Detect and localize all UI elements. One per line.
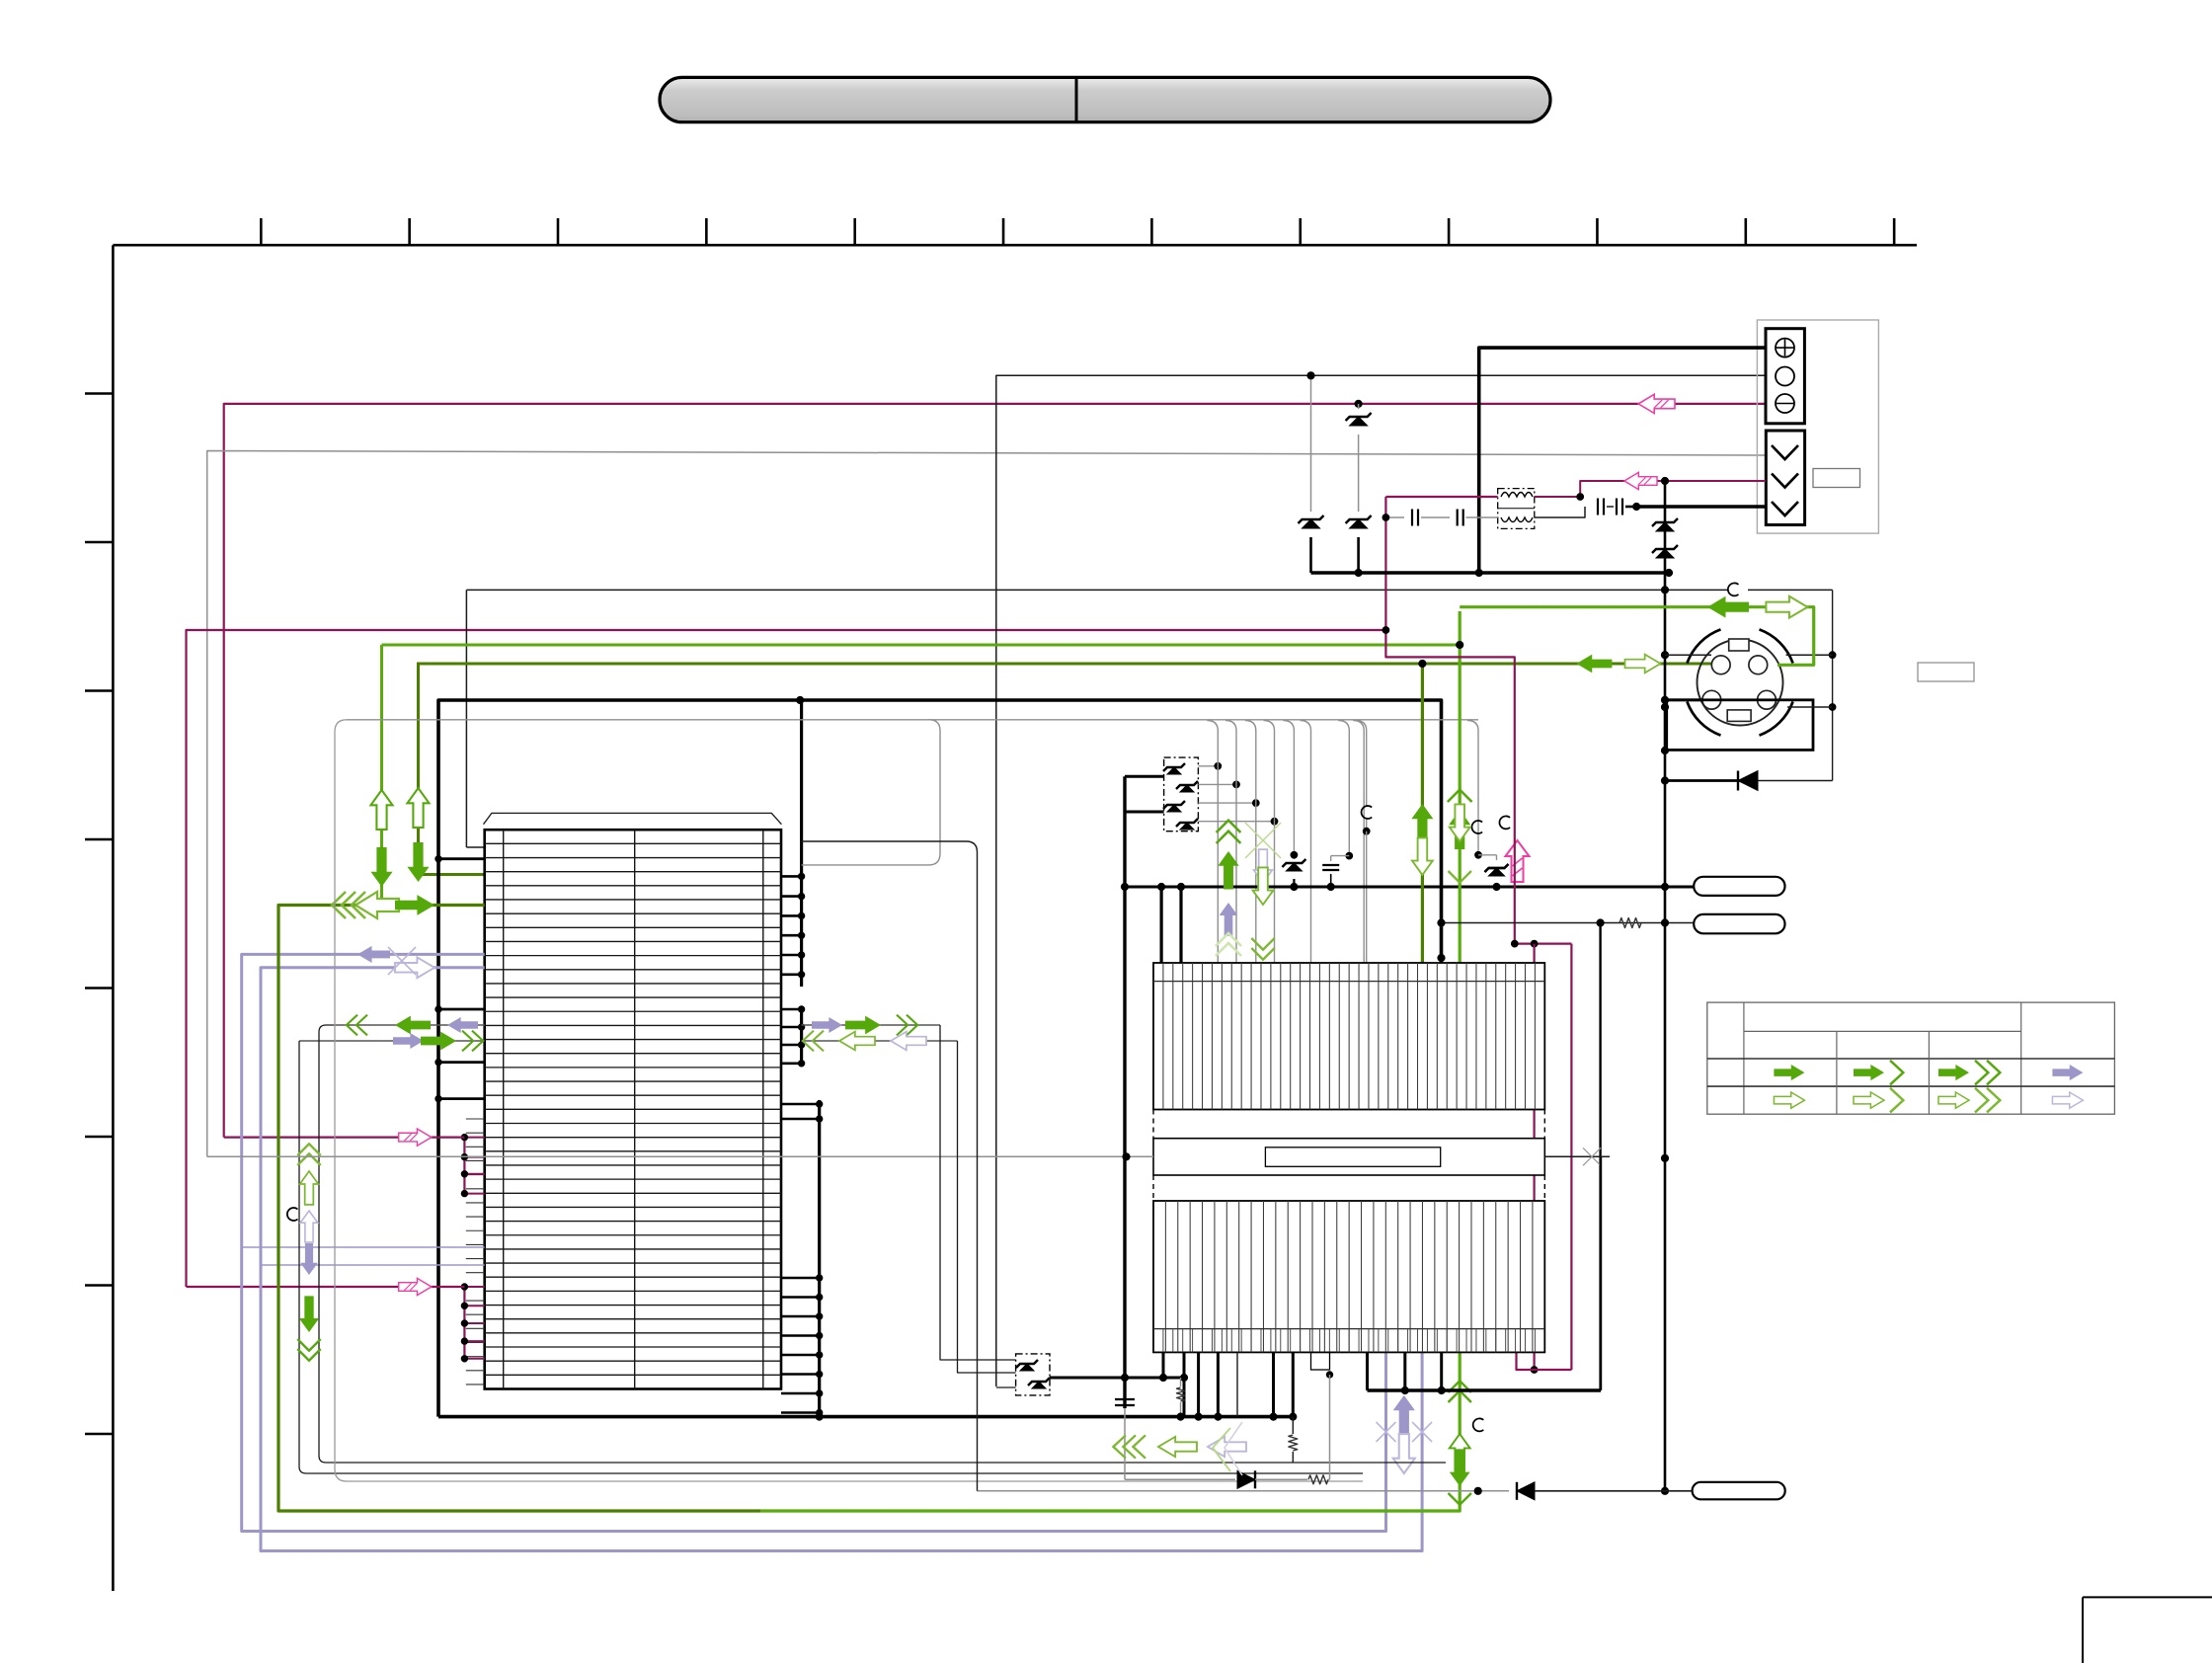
wire: long crimson bus left: [187, 630, 1386, 1287]
small gray rect beside jack: [1813, 469, 1860, 488]
mosfet gate line4: [1198, 821, 1274, 823]
thick pin 1233 bottom: [1217, 1352, 1220, 1416]
filter out to pin2 wire: [1535, 481, 1766, 497]
bottom-right corner box: [2083, 1596, 2212, 1598]
S-video mini-DIN connector: [1760, 702, 1793, 736]
pin bus right of left block group3: [818, 1100, 821, 1417]
pill C wire: [978, 1490, 1510, 1492]
resistor below rail: [1292, 1417, 1294, 1434]
lavender solid down arrow stack: [300, 1243, 318, 1275]
thick pin 1384 bottom: [1366, 1352, 1369, 1390]
pin bus right of left block group2: [800, 1009, 803, 1064]
diode wire below S-video: [1665, 779, 1754, 782]
legend open arrow c2: [1854, 1088, 1903, 1113]
gray bus rake main: [347, 719, 1478, 721]
green solid up arrow on 1440: [1411, 804, 1433, 843]
dark green big loop wire left: [278, 906, 760, 1512]
lavender solid left arrow y1038L: [447, 1017, 478, 1033]
rail junction dots: [1177, 1413, 1184, 1420]
title banner pill: [660, 77, 1550, 121]
thick black bus y=898: [1125, 886, 1694, 889]
green solid up+chev arrow on 1478: [1448, 790, 1472, 849]
IC block right middle band: [1152, 1110, 1154, 1139]
zener box bottom: [1016, 1354, 1050, 1395]
green big loop wire right: [760, 1352, 1460, 1511]
lavender solid left arrow y=966: [357, 946, 390, 963]
big green open right arrow y=619: [1766, 596, 1807, 618]
wire: dark green horizontal y=670 to S-video: [419, 663, 1712, 666]
rake branch to capacitor: [1338, 721, 1349, 856]
lavender solid up arrow bottom right: [1393, 1395, 1415, 1435]
frame wire F2: [299, 1041, 1363, 1473]
wire: thin black long net y=595: [466, 589, 1832, 591]
bus junction dots: [1121, 883, 1128, 890]
lavender solid up arrow mid below bus: [1220, 903, 1238, 936]
lavender loop2 wire: [261, 968, 1422, 1551]
zener chain x=1327.5: [1310, 375, 1312, 512]
thick pin 1459 bottom: [1440, 1352, 1443, 1390]
pink arrow on pin2 wire: [1624, 472, 1657, 489]
crimson wire into group2: [187, 1286, 465, 1288]
frame wire F1: [0, 0, 1, 1]
terminal block 3-pin (circles): [1766, 329, 1804, 424]
curl on frame top: [1728, 583, 1748, 596]
gray drop wire to pill C: [802, 841, 978, 1491]
thick pin 1199 bottom: [1183, 1352, 1186, 1416]
resistor pin 1195: [1180, 1378, 1182, 1386]
legend solid arrow c1: [1774, 1065, 1804, 1080]
gray wire with diode+resistor: [1124, 1408, 1126, 1479]
zeners on x=1686: [1656, 522, 1674, 531]
thick stub into mosfet box1: [1125, 775, 1164, 778]
filter bottom out caps to pin3: [1535, 507, 1585, 517]
crimson pin bus group2: [463, 1287, 465, 1359]
curl glyph top: [1728, 583, 1739, 595]
capacitor below x=1139: [1115, 1398, 1135, 1400]
thick stubs left of block: [438, 857, 485, 860]
left ruler with ticks: [112, 245, 115, 1591]
thick pin 1422 bottom: [1403, 1352, 1406, 1390]
rake branch to zener pair: [1283, 721, 1294, 855]
thick vertical x=1139: [1123, 776, 1126, 1408]
green solid right arrow y1038R: [845, 1015, 917, 1036]
purple solid up arrow bottom: [1393, 1395, 1414, 1433]
pill terminal C: [1693, 1482, 1785, 1500]
green open right arrow y=670: [1625, 655, 1661, 673]
wire: gray net to DC-jack pin1: [207, 451, 1766, 1157]
MOSFET/zener array box top: [1164, 757, 1199, 831]
green solid right arrow y1054L: [421, 1031, 483, 1052]
S-video pin wires row2: [1665, 698, 1702, 701]
green open left chevron arrow y=1465: [1113, 1435, 1197, 1458]
IC block left (connector CN grid): [484, 813, 782, 824]
green chevron open up arrow bottom right: [1449, 1381, 1471, 1470]
IC block right top section: [1153, 963, 1544, 1110]
lavender branch stub2: [261, 1264, 485, 1266]
bright green S-video loop: [1460, 607, 1814, 666]
white open up arrow stack: [300, 1211, 318, 1242]
wire: dark green vertical drop x=423.5: [419, 663, 485, 875]
dots on long vertical: [1661, 587, 1668, 594]
rake branch with curl: [1356, 721, 1367, 807]
line y1038 right: [802, 1024, 940, 1026]
small box under right block: [1311, 1352, 1330, 1370]
dark green vertical x=1440: [1421, 664, 1424, 963]
thin pin 1253 bottom: [1236, 1352, 1238, 1416]
junction dot at right block top: [1438, 954, 1445, 961]
top ruler with ticks: [113, 244, 1917, 247]
green solid down arrow stack: [297, 1296, 320, 1360]
pill B wire: [1442, 922, 1695, 924]
green open down+chev arrow on 1478: [1449, 804, 1471, 882]
mosfet gate line1: [1198, 765, 1218, 767]
wire: bright green vertical drop x=386.5: [380, 645, 383, 906]
cap chain left of filter: [1385, 516, 1404, 518]
crimson bottom hook: [1517, 1352, 1572, 1370]
green solid down arrow on x=423.5: [407, 842, 429, 882]
pink arrow on crimson terminal wire: [1638, 394, 1675, 413]
vertical x=1620 down: [1599, 923, 1601, 1391]
mosfet gate line2: [1198, 783, 1236, 785]
IC block right bottom section: [1153, 1201, 1544, 1352]
gray line y1054 left: [299, 1040, 485, 1042]
white open left arrow y1054R: [891, 1032, 926, 1051]
green open up arrow stack: [297, 1144, 320, 1205]
green solid left arrow y1038L: [347, 1015, 431, 1036]
big gray frame left+bottom: [335, 720, 1363, 1481]
DC jack 3-chevron connector: [1766, 431, 1804, 525]
thick pin 1178 bottom: [1162, 1352, 1165, 1378]
banner divider: [1075, 77, 1078, 121]
thick bottom rail: [438, 1415, 1295, 1419]
crimson wire into group1: [224, 1136, 465, 1138]
legend solid arrow c3: [1938, 1061, 2000, 1085]
lavender branch stub1: [242, 1246, 485, 1248]
green open left arrow y1054R: [803, 1031, 875, 1052]
green open down arrow on 1440: [1412, 837, 1433, 875]
lavender open right arrow y=980: [395, 957, 434, 978]
curl glyph left stack: [287, 1208, 298, 1221]
terminal block outer gray box: [1757, 320, 1878, 533]
rake last branch to zener: [1467, 721, 1478, 855]
curl on rake near zener: [1471, 821, 1482, 833]
green open up arrow on x=423.5: [407, 788, 429, 828]
bus rake branches into right block: [1207, 721, 1218, 964]
LC filter box: [1498, 489, 1535, 529]
thick pin down 1196: [1179, 887, 1182, 963]
legend purple arrow: [2052, 1065, 2083, 1080]
green solid right arrow y=916: [395, 895, 434, 915]
thick bus y=1408: [1368, 1388, 1602, 1391]
pin bus right of left block group1: [800, 701, 803, 987]
legend open arrow c1: [1774, 1092, 1804, 1108]
crimson path filter to right block: [1385, 497, 1514, 944]
big green solid left arrow y=619: [1707, 596, 1749, 618]
thick pin 1213 bottom: [1197, 1352, 1200, 1416]
crimson wire into filter: [1385, 496, 1497, 498]
thick bus y=580: [1311, 571, 1670, 574]
green open down arrow mid below bus: [1251, 867, 1274, 959]
x-mark crossing at lavender arrows: [388, 947, 416, 975]
rake branch to left block bus: [802, 720, 940, 865]
lavender open down arrow mid: [1254, 849, 1273, 883]
S-video pin wires row1: [1665, 654, 1711, 656]
centerline stub left: [207, 1155, 1153, 1157]
thick pin down 1176: [1159, 887, 1162, 963]
thick wire zener to pins: [1050, 1377, 1184, 1380]
legend table: [1707, 1002, 2115, 1114]
bright green vertical x=1478: [1459, 611, 1461, 963]
crimson horizontal y=955.6: [1515, 942, 1572, 944]
green open up arrow on x=386.5: [370, 790, 392, 830]
black zener pair right of greens: [1489, 868, 1505, 876]
S-video bottom stub: [1665, 749, 1667, 752]
thick pin 1309 bottom: [1292, 1352, 1295, 1416]
curl glyph mid1: [1499, 816, 1510, 829]
legend open arrow c3: [1938, 1088, 2000, 1113]
resistor on pill B wire: [1619, 918, 1641, 928]
thick rail corner x=1621: [1600, 1157, 1602, 1390]
light chevrons below bus: [1216, 933, 1241, 956]
thick wire to terminal plus: [1479, 348, 1766, 573]
gray line y1038 left: [335, 1024, 485, 1026]
zener box left wires: [940, 1025, 1016, 1360]
wire: bright green horizontal y=653: [382, 644, 1461, 647]
crimson vertical x=1591.4: [1570, 944, 1572, 1370]
S-video frame line: [1832, 590, 1834, 780]
green solid down arrow on x=386.5: [370, 847, 392, 887]
lavender open down arrow bottom right: [1393, 1434, 1415, 1473]
green open left chevron arrow y=916: [332, 892, 399, 918]
black box under S-video: [1667, 700, 1813, 751]
zener chain x=1375.6: [1355, 400, 1362, 407]
lavender loop1 wire: [242, 954, 1386, 1531]
junction dot top edge: [797, 696, 804, 703]
line y1054 right: [802, 1040, 958, 1042]
long vertical x=1686: [1664, 481, 1667, 1491]
small gray rect right of S-video: [1918, 663, 1974, 681]
crimson vertical x=1553.6: [1533, 944, 1535, 1370]
thick bus outline around left block: [438, 700, 1442, 1417]
wire: crimson net to terminal minus pin: [224, 404, 1766, 1138]
lavender solid right arrow y1038R: [812, 1017, 842, 1033]
lavender solid right arrow y1054L: [393, 1033, 424, 1049]
centerline stub right: [1544, 1155, 1610, 1157]
wire: thin black net to terminal middle pin: [996, 375, 1766, 1386]
curl glyph bottom: [1473, 1418, 1484, 1431]
thin stub comb left of block: [466, 1118, 485, 1120]
crimson pin bus group1: [463, 1138, 465, 1194]
pink arrow on crimson wire2: [399, 1278, 432, 1295]
legend open purple arrow: [2052, 1092, 2083, 1108]
decorative bracket glyph green: [1213, 1428, 1230, 1471]
green solid left arrow y=670: [1576, 655, 1612, 673]
legend solid arrow c2: [1854, 1061, 1903, 1085]
x-mark light green mid: [1245, 823, 1281, 858]
thick stub into mosfet box2: [1125, 811, 1164, 814]
green solid down arrow bottom right: [1449, 1449, 1471, 1504]
pink open up arrow x=1536: [1506, 840, 1530, 882]
x-mark on lavender vertical right2: [1412, 1422, 1432, 1442]
green chevrons+solid up arrow mid: [1217, 821, 1241, 890]
mosfet gate line3: [1198, 802, 1255, 804]
white open left arrow y=1465: [1208, 1437, 1246, 1457]
thick pin 1289 bottom: [1272, 1352, 1275, 1416]
x-mark on lavender vertical right1: [1377, 1422, 1396, 1442]
pill terminal A: [1694, 877, 1784, 896]
pill terminal B: [1694, 914, 1784, 933]
pink arrow on crimson wire1: [399, 1129, 432, 1146]
